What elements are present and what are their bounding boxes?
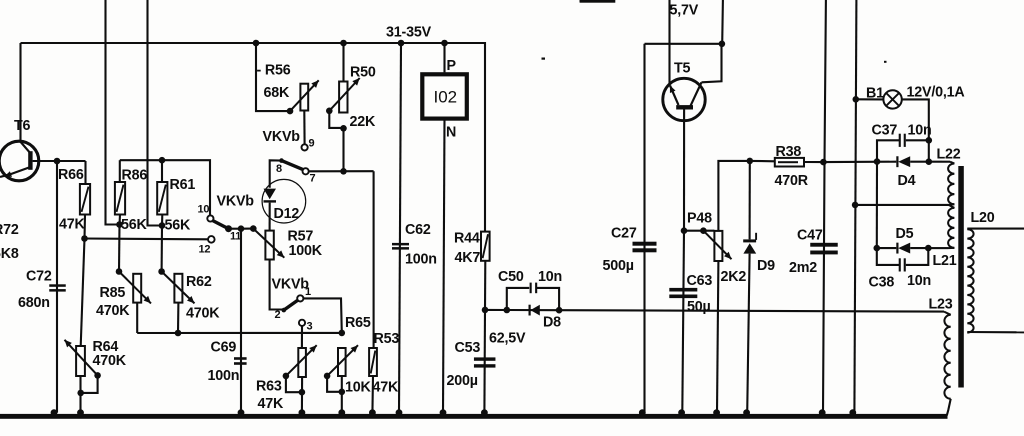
trimmer R63	[298, 348, 306, 377]
transformer core	[958, 166, 964, 388]
svg-text:R62: R62	[186, 274, 212, 290]
trimmer R57	[265, 231, 273, 260]
wire C50 bridge left	[507, 288, 529, 310]
svg-text:68K: 68K	[264, 85, 291, 101]
winding L22	[942, 162, 954, 205]
junction R65 bottom tie	[339, 389, 346, 396]
svg-text:B1: B1	[866, 86, 884, 102]
svg-text:R66: R66	[58, 167, 84, 183]
svg-text:C27: C27	[611, 226, 637, 242]
label L20	[971, 210, 995, 226]
wire D5 node to L21	[928, 247, 942, 249]
regulator IO2	[422, 74, 467, 118]
svg-text:VKVb: VKVb	[263, 129, 301, 145]
wire switch-7 node horizontal	[309, 170, 374, 172]
label R65	[345, 315, 371, 331]
resistor R86	[115, 182, 125, 215]
label 4K7 R44	[455, 250, 481, 266]
wire R65 wiper loop	[327, 376, 342, 392]
label 47K R63	[258, 396, 285, 412]
svg-text:R63: R63	[256, 379, 282, 395]
label L22	[937, 147, 961, 163]
label -R56	[257, 63, 291, 79]
junction R86 bottom node	[116, 221, 123, 228]
wire R86 bottom stub	[118, 215, 121, 225]
wire P48 node to body	[684, 230, 714, 232]
diode D12	[262, 179, 306, 223]
junction P48 node	[681, 227, 688, 234]
wire R57 bottom to switch terminal 2	[270, 260, 283, 310]
wire 31-35V rail corner down to R44	[484, 42, 486, 232]
label C63	[687, 273, 713, 289]
svg-text:L20: L20	[971, 210, 995, 226]
svg-text:10n: 10n	[907, 273, 931, 289]
diode D5	[877, 243, 929, 254]
label 470R	[775, 173, 809, 189]
wire 31-35V supply rail (top left)	[21, 42, 486, 44]
trimmer R50	[339, 82, 347, 113]
svg-text:P48: P48	[687, 211, 712, 227]
svg-text:56K: 56K	[121, 217, 148, 233]
wire R61 top feed	[161, 160, 163, 182]
junction P48 wiper node	[700, 227, 707, 234]
wire R86 top feed	[119, 160, 121, 182]
junction D5 right node	[925, 245, 932, 252]
svg-text:N: N	[446, 125, 456, 141]
lamp B1	[856, 90, 929, 140]
wire R86 node down to R85	[118, 225, 121, 272]
diode D8	[529, 305, 540, 316]
junction ground rail at C72	[51, 409, 58, 416]
svg-text:C38: C38	[869, 275, 895, 291]
label R61	[170, 177, 196, 193]
wire D9 bottom to ground rail	[747, 254, 749, 413]
junction C50 left node	[504, 307, 511, 314]
switch arm 10-11	[213, 221, 229, 229]
label 22K R50	[350, 114, 377, 130]
wire 11-node to R57 wiper	[241, 228, 253, 230]
label D12	[274, 206, 300, 222]
junction R57 wiper node	[250, 225, 257, 232]
trimmer R85	[133, 274, 141, 303]
label N	[446, 125, 456, 141]
wiper arrow R56	[290, 80, 319, 111]
svg-text:T6: T6	[14, 118, 31, 134]
label 10	[198, 204, 210, 216]
label P	[447, 58, 457, 74]
label C50	[498, 269, 524, 285]
label 50µ C63	[687, 299, 711, 315]
label 12V/0,1A	[907, 85, 965, 101]
svg-text:R61: R61	[170, 177, 196, 193]
wire R50 wiper loop	[329, 111, 343, 128]
junction R63 bottom tie	[299, 389, 306, 396]
label L21	[933, 253, 957, 269]
svg-text:C62: C62	[405, 222, 431, 238]
label 8	[276, 163, 282, 175]
svg-text:8: 8	[276, 163, 282, 175]
svg-text:D12: D12	[274, 206, 300, 222]
svg-text:C50: C50	[498, 269, 524, 285]
wire R66 node down to R64	[81, 239, 85, 347]
wire C38 bridge	[877, 248, 899, 265]
svg-text:12: 12	[199, 244, 211, 256]
winding L20	[967, 229, 1024, 333]
label C37	[872, 123, 898, 139]
junction ground rail at C47	[819, 409, 826, 416]
wire D4 to L22	[910, 161, 942, 163]
junction ground rail at C27	[639, 409, 646, 416]
label 3	[307, 321, 313, 333]
label C38	[869, 275, 895, 291]
label 5,7V	[670, 3, 699, 19]
wire P48 top to D9 wire	[718, 161, 749, 231]
wire B1 line from top edge to ground	[854, 0, 856, 413]
junction R65 top node	[339, 330, 346, 337]
zener diode D9	[743, 233, 756, 254]
speck	[884, 61, 887, 63]
label R85	[100, 285, 126, 301]
resistor R66	[80, 184, 90, 215]
wire D12 cathode to R57	[269, 203, 271, 231]
capacitor C27	[633, 242, 657, 253]
label R50	[350, 65, 376, 81]
label 12	[199, 244, 211, 256]
wire 11-node to C69 branch	[229, 228, 242, 230]
label 6K8 (cut at left edge)	[0, 246, 19, 262]
label 680n	[18, 295, 50, 311]
terminal 9 of switch VKVb	[302, 144, 308, 150]
resistor R53	[369, 348, 377, 376]
junction R63 wiper-end	[283, 373, 290, 380]
wire collector feed from top edge	[721, 0, 724, 44]
terminal 10 of switch VKVb	[207, 215, 213, 221]
transistor T6	[0, 141, 57, 181]
junction R56 wiper node	[287, 108, 294, 115]
svg-text:100n: 100n	[208, 368, 240, 384]
wire terminal 8 to D12	[270, 160, 282, 188]
junction ground rail at C63	[678, 409, 685, 416]
label 11	[230, 231, 241, 243]
capacitor C72	[49, 284, 66, 291]
wire R50 feed	[342, 43, 344, 82]
trimmer R64	[76, 346, 85, 376]
ground rail	[0, 414, 948, 419]
label 10n C38	[907, 273, 931, 289]
svg-text:3: 3	[307, 321, 313, 333]
svg-text:2: 2	[275, 309, 281, 321]
wire C37/D5 branch line	[876, 162, 878, 249]
trimmer R56	[300, 84, 308, 111]
svg-text:T5: T5	[674, 61, 691, 77]
wire C47 node to D4	[823, 161, 896, 164]
wire node-12 line	[85, 237, 209, 240]
junction R85 wiper node	[116, 268, 123, 275]
svg-text:VKVb: VKVb	[272, 277, 310, 293]
junction on 31-35V rail at C62	[398, 40, 405, 47]
label 200µ C53	[447, 373, 478, 389]
junction switch-7 node	[340, 168, 347, 175]
terminal 3 of switch VKVb	[299, 320, 305, 326]
junction C69 branch	[238, 225, 245, 232]
label 7	[310, 173, 316, 185]
label R44	[454, 231, 480, 247]
label 470K R64	[93, 353, 127, 369]
transistor T5	[663, 44, 722, 121]
svg-text:47K: 47K	[373, 380, 400, 396]
junction ground rail at R64	[77, 409, 84, 416]
capacitor C37	[899, 134, 906, 147]
label T5	[674, 61, 691, 77]
label 62,5V	[489, 331, 526, 347]
junction ground rail at C53	[481, 409, 488, 416]
label 68K R56	[264, 85, 291, 101]
wiper arrow R63	[286, 345, 317, 376]
label R72 (cut at left edge)	[0, 222, 19, 238]
capacitor C47	[810, 243, 838, 255]
junction C47 node	[820, 159, 827, 166]
svg-text:- R56: - R56	[257, 63, 291, 79]
svg-text:C47: C47	[797, 228, 823, 244]
wiper arrow R85	[119, 272, 151, 304]
label C53	[455, 340, 481, 356]
wire P48 bottom to ground rail	[717, 261, 718, 413]
junction ground rail at R63	[299, 409, 306, 416]
terminal 1 of switch VKVb	[297, 295, 303, 301]
wiper arrow R64	[65, 340, 98, 376]
label VKVb (switch 10-11-12)	[217, 194, 255, 210]
wire C50 bridge right	[537, 288, 559, 310]
wire R62 bottom to 333-wire	[177, 303, 179, 333]
label C27	[611, 226, 637, 242]
label D4	[898, 173, 916, 189]
junction 62.5V node	[482, 307, 489, 314]
label 2	[275, 309, 281, 321]
label 10n C50	[538, 269, 562, 285]
resistor R38	[775, 158, 804, 167]
terminal 12 of switch VKVb	[208, 236, 215, 243]
capacitor C69	[234, 357, 247, 365]
svg-text:R44: R44	[454, 231, 480, 247]
label R86	[122, 168, 148, 184]
svg-text:47K: 47K	[258, 396, 285, 412]
label C72	[26, 269, 52, 285]
svg-text:11: 11	[230, 231, 241, 243]
terminal 7 of switch VKVb	[303, 168, 309, 174]
trimmer R65	[338, 348, 346, 376]
capacitor C53	[474, 357, 496, 367]
wire R61 bottom stub	[161, 215, 163, 226]
wire T6 base node down to C72	[56, 161, 58, 413]
svg-text:200µ: 200µ	[447, 373, 478, 389]
junction ground rail at B1 line	[849, 409, 856, 416]
svg-text:R72: R72	[0, 222, 19, 238]
wire R56 feed from supply	[256, 43, 287, 111]
junction ground rail at R53	[369, 409, 376, 416]
svg-text:R65: R65	[345, 315, 371, 331]
svg-text:2m2: 2m2	[789, 260, 817, 276]
label R62	[186, 274, 212, 290]
wiper arrow R50	[329, 78, 359, 111]
wire 5.7V emitter line from top	[668, 0, 670, 85]
svg-text:C72: C72	[26, 269, 52, 285]
svg-text:I02: I02	[434, 88, 458, 107]
wire R53 top line to switch-7 node	[373, 171, 375, 348]
label 56K R61	[165, 218, 192, 234]
svg-text:D8: D8	[543, 315, 561, 331]
svg-text:D5: D5	[896, 226, 914, 242]
junction R61 bottom node	[159, 222, 166, 229]
label 10K R65	[345, 380, 372, 396]
svg-text:VKVb: VKVb	[217, 194, 255, 210]
wire R66 top feed	[84, 161, 86, 184]
label R53	[374, 331, 400, 347]
svg-text:C69: C69	[211, 340, 237, 356]
junction R64 bottom tie	[77, 390, 84, 397]
junction R65 wiper-end	[324, 373, 331, 380]
label 470K R85	[96, 303, 130, 319]
label 9	[309, 138, 315, 150]
junction D9 top node	[747, 158, 754, 165]
wiper arrow R57	[253, 229, 284, 258]
wire C53 line	[483, 310, 486, 413]
node 31-35V label	[386, 25, 432, 41]
junction C37 right node	[926, 137, 933, 144]
svg-text:22K: 22K	[350, 114, 377, 130]
junction R66 bottom node	[81, 235, 88, 242]
wire R64 wiper loop	[81, 375, 98, 393]
wire C38 right link	[906, 248, 929, 265]
wire R53 bottom to ground rail	[371, 376, 374, 414]
junction R62-bottom on 333-wire	[175, 330, 182, 337]
wiper arrow R65	[327, 345, 358, 376]
svg-text:10n: 10n	[908, 123, 932, 139]
wire C37 right link	[906, 139, 929, 141]
junction on 31-35V rail at IO2 pin P	[441, 40, 448, 47]
label D5	[896, 226, 914, 242]
junction T6 base node	[54, 158, 61, 165]
svg-text:R85: R85	[100, 285, 126, 301]
label 10n C37	[908, 123, 932, 139]
svg-text:R86: R86	[122, 168, 148, 184]
svg-text:47K: 47K	[59, 217, 86, 233]
junction ground rail at P48	[713, 409, 720, 416]
wire C47 line from top edge	[823, 0, 826, 413]
svg-text:R38: R38	[776, 144, 802, 160]
capacitor C50	[530, 283, 538, 294]
wire D9 top	[749, 161, 751, 240]
wire 62.5V node to D8 anode	[485, 309, 559, 311]
junction ground rail at R65	[338, 409, 345, 416]
wire R63 wiper loop	[286, 376, 302, 392]
wire B1-right down to D4 wire	[928, 140, 930, 161]
box (cut off at top edge)	[580, 0, 616, 3]
junction ground rail at IO2 N	[440, 409, 447, 416]
junction D4 anode-side node	[874, 158, 881, 165]
svg-text:L21: L21	[933, 253, 957, 269]
svg-text:10n: 10n	[538, 269, 562, 285]
svg-text:C63: C63	[687, 273, 713, 289]
label 100K R57	[289, 243, 323, 259]
label VKVb (switch 9-8-7)	[263, 129, 301, 145]
svg-text:10K: 10K	[345, 380, 372, 396]
wire T5 top link	[645, 43, 722, 45]
label VKVb (switch 1-2-3)	[272, 277, 310, 293]
wire IO2 pin P	[443, 43, 445, 72]
junction ground rail at C62	[396, 409, 403, 416]
wire R63 bottom to ground rail	[301, 377, 303, 414]
wire R85/R62 bottoms to R65 node	[137, 332, 342, 334]
junction ground rail at C69	[238, 409, 245, 416]
svg-text:C37: C37	[872, 123, 898, 139]
wire T5 base down to P48 node	[683, 110, 685, 231]
junction R50 bottom tie	[340, 125, 347, 132]
wire R65 bottom to ground rail	[341, 376, 343, 414]
svg-text:680n: 680n	[18, 295, 50, 311]
wire terminal 1 to R65 node	[303, 298, 342, 333]
junction B1 node	[853, 96, 860, 103]
svg-text:100K: 100K	[289, 243, 323, 259]
label 47K R53	[373, 380, 400, 396]
svg-text:7: 7	[310, 173, 316, 185]
svg-text:50µ: 50µ	[687, 299, 711, 315]
wire C69 branch down	[240, 229, 242, 413]
label P48	[687, 211, 712, 227]
label T6	[14, 118, 31, 134]
label 56K R86	[121, 217, 148, 233]
junction R64 wiper-end	[94, 372, 101, 379]
wire IO2 pin N to ground rail	[443, 119, 445, 413]
label 1	[305, 286, 311, 298]
svg-text:R50: R50	[350, 65, 376, 81]
junction R62 wiper node	[158, 268, 165, 275]
wire T6 base node to R66	[57, 160, 86, 162]
svg-text:100n: 100n	[405, 252, 437, 268]
svg-text:L22: L22	[937, 147, 961, 163]
wire T6 collector feed from 31-35V rail	[19, 43, 21, 142]
svg-text:2K2: 2K2	[721, 269, 747, 285]
junction on 31-35V rail at R50	[340, 40, 347, 47]
svg-text:10: 10	[198, 204, 210, 216]
wire transformer centre tap	[855, 204, 948, 206]
junction R50 wiper node	[326, 108, 333, 115]
wire R44 bottom to 62.5V node	[484, 261, 486, 310]
capacitor C62	[392, 243, 409, 250]
wire C62 line	[399, 43, 401, 413]
capacitor C38	[899, 258, 906, 271]
svg-text:6K8: 6K8	[0, 246, 19, 262]
wiper arrow P48	[703, 231, 731, 260]
capacitor C63	[669, 288, 697, 298]
switch arm 8-7	[279, 158, 303, 169]
label 47K R66	[59, 217, 86, 233]
wire C27 line	[643, 44, 645, 413]
wire R85 bottom to 333-wire	[136, 303, 138, 333]
svg-text:9: 9	[309, 138, 315, 150]
wire input line from top edge to R86	[106, 0, 117, 225]
wire R56 bottom to terminal 9	[303, 111, 305, 145]
label R38	[776, 144, 802, 160]
label B1	[866, 86, 884, 102]
junction D5 left node	[874, 245, 881, 252]
wire terminal 3 down to R63	[301, 326, 303, 348]
svg-text:L23: L23	[929, 297, 953, 313]
svg-text:31-35V: 31-35V	[386, 25, 432, 41]
junction D8 cathode node	[556, 307, 563, 314]
wiper arrow R62	[162, 272, 195, 304]
svg-text:C53: C53	[455, 340, 481, 356]
svg-text:470K: 470K	[186, 306, 220, 322]
